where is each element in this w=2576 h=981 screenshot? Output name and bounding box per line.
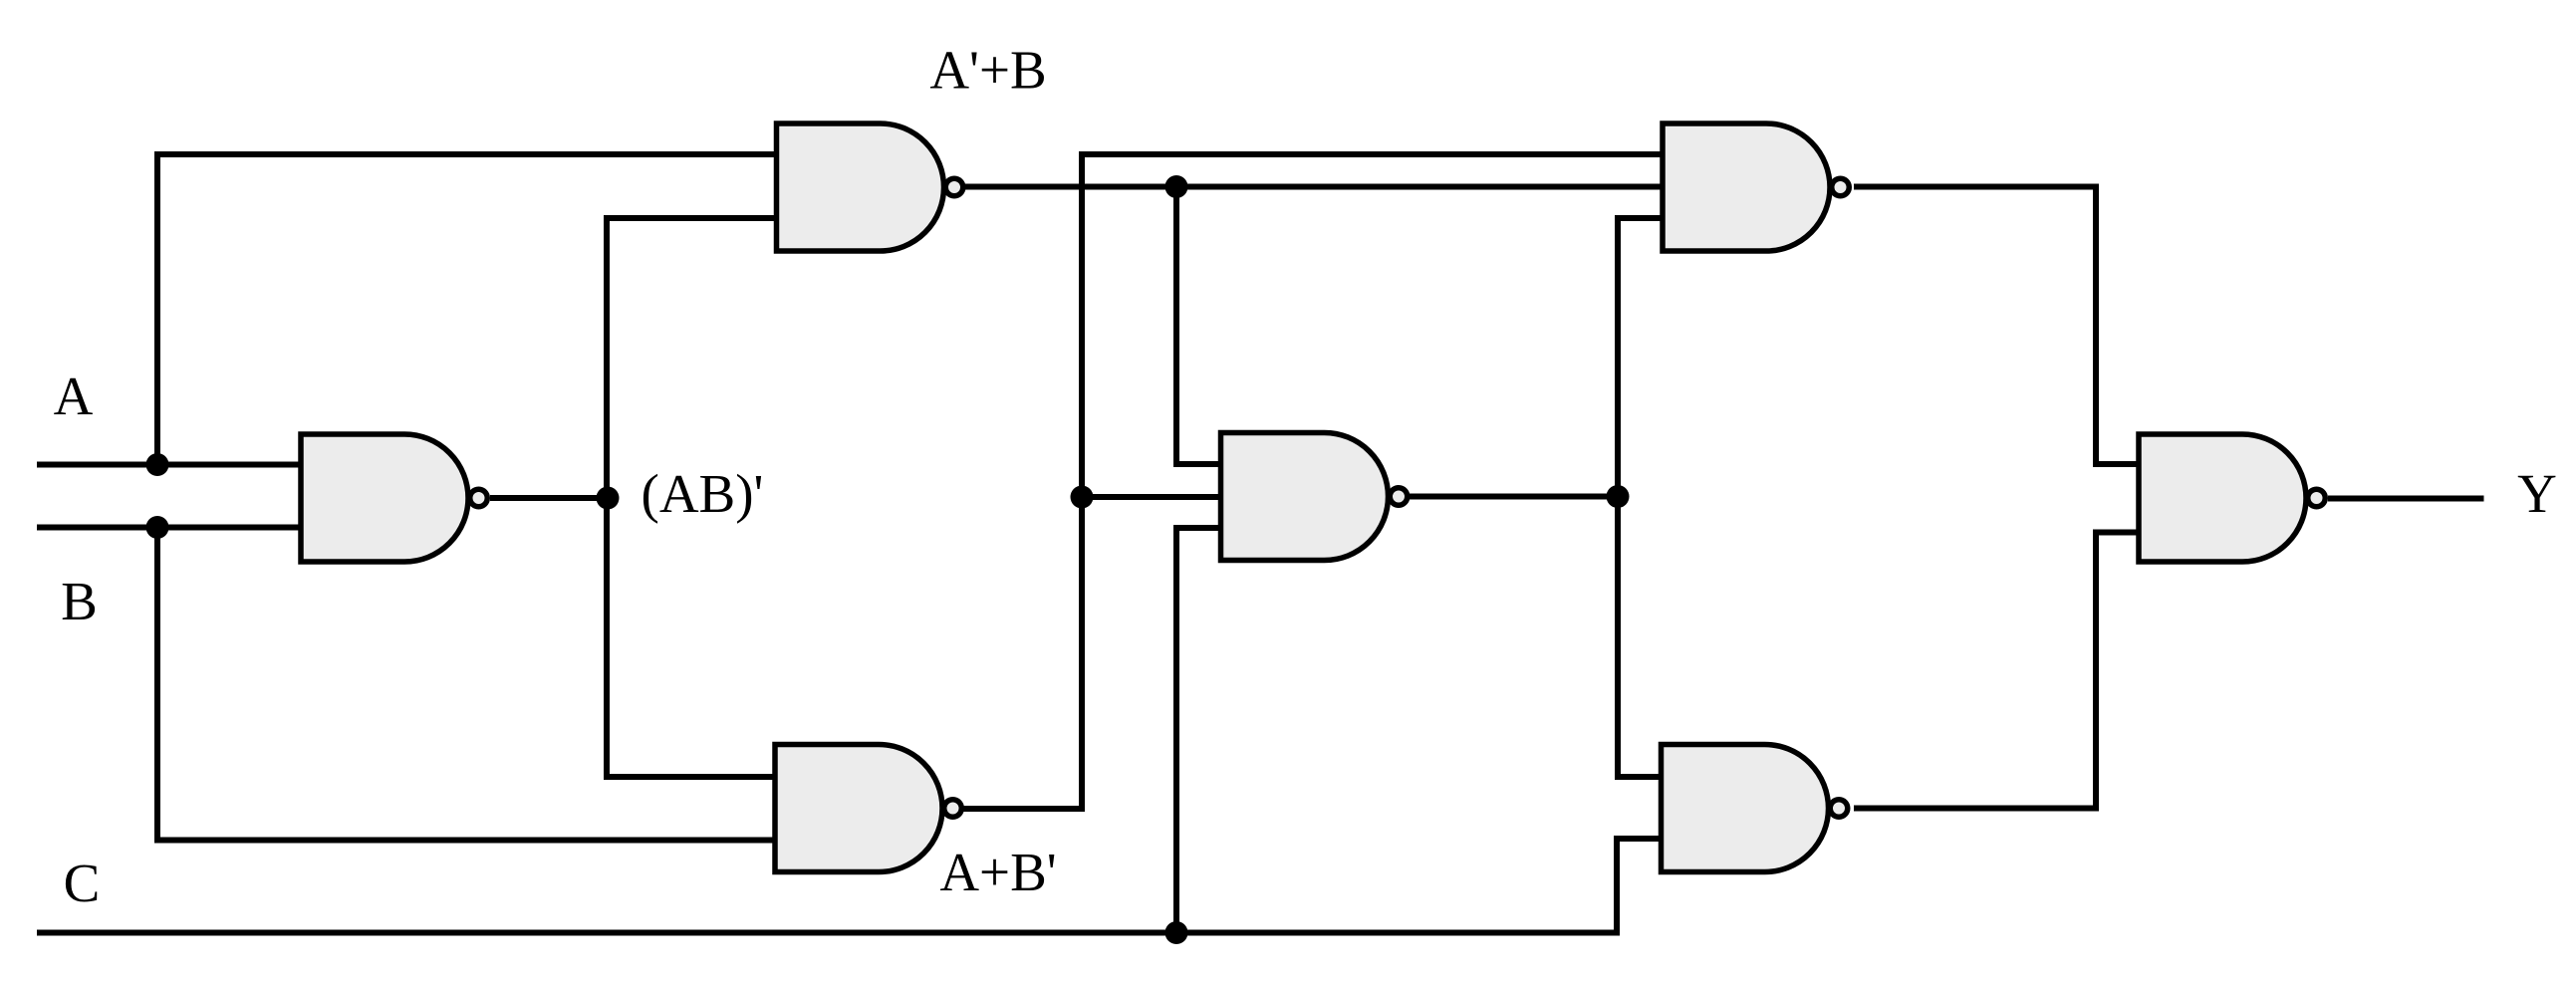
- wire A branch up to gate U2 top input: [157, 154, 777, 465]
- wire input C horizontal to gate U6 bottom input: [37, 839, 1662, 933]
- NAND gate U3 (output A+B'): [775, 745, 961, 872]
- wire B branch down to gate U3 bottom input: [157, 528, 775, 841]
- wire U1 output to node (AB)': [490, 495, 610, 501]
- junction node A+B': [1071, 486, 1094, 509]
- wire U4 output vertical to U5 bottom input and U6 top input: [1618, 218, 1663, 777]
- NAND gate U5 (3-input, top right): [1663, 123, 1849, 251]
- svg-text:C: C: [64, 853, 101, 913]
- wire U4 output to node: [1409, 494, 1618, 500]
- svg-text:(AB)': (AB)': [642, 463, 764, 524]
- junction node C: [1165, 921, 1188, 944]
- wire U5 output to gate U7 top input: [1854, 187, 2139, 465]
- NAND gate U1 (inputs A,B): [301, 434, 487, 562]
- wire input A horizontal: [37, 462, 301, 468]
- junction node (AB)': [597, 487, 620, 510]
- NAND gate U2 (output A'+B): [777, 123, 963, 251]
- wire C branch up to gate U4 bottom input: [1176, 528, 1221, 933]
- NAND gate U4 (3-input, middle): [1221, 433, 1408, 561]
- svg-text:A'+B: A'+B: [929, 40, 1046, 101]
- wire (AB)' vertical to U2 bottom input and U3 top input: [607, 218, 777, 777]
- NAND gate U6 (bottom right): [1662, 745, 1848, 872]
- junction node A'+B: [1165, 175, 1188, 198]
- junction node U4 output: [1607, 485, 1630, 508]
- svg-text:B: B: [61, 571, 98, 631]
- svg-text:A+B': A+B': [939, 842, 1056, 902]
- svg-text:Y: Y: [2517, 463, 2557, 524]
- wire A+B' branch to gate U4 middle input: [1082, 494, 1221, 500]
- junction node A: [146, 453, 169, 476]
- svg-text:A: A: [54, 366, 94, 426]
- wire U3 output A+B' riser to gate U5 top input: [962, 154, 1663, 809]
- junction node B: [146, 516, 169, 539]
- wire A'+B branch down to gate U4 top input: [1176, 187, 1221, 465]
- NAND gate U7 (output Y): [2139, 434, 2325, 562]
- wire U2 output A'+B to gate U5 middle input: [963, 184, 1663, 190]
- wire input B horizontal: [37, 525, 301, 531]
- wire U6 output to gate U7 bottom input: [1854, 533, 2139, 809]
- wire output Y: [2328, 496, 2484, 502]
